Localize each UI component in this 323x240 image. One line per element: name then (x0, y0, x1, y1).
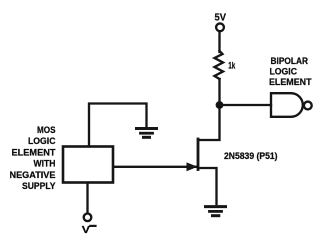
ground (top) bar 1 (137, 127, 157, 130)
svg-text:BIPOLAR: BIPOLAR (271, 56, 309, 66)
wire box top to ground (89, 104, 147, 147)
svg-text:LOGIC: LOGIC (28, 136, 56, 146)
NAND gate U1 body (271, 93, 303, 117)
svg-text:V: V (82, 225, 90, 236)
V- terminal circle (84, 214, 92, 222)
svg-text:WITH: WITH (34, 159, 56, 169)
svg-text:NEGATIVE: NEGATIVE (10, 170, 56, 180)
5V terminal circle (216, 23, 224, 31)
svg-text:1k: 1k (228, 61, 236, 71)
ground (top) bar 2 (141, 132, 153, 135)
svg-text:2N5839 (P51): 2N5839 (P51) (224, 151, 278, 161)
ground (source) bar 1 (206, 205, 226, 208)
transistor Q1 gate arrow (187, 162, 198, 171)
svg-text:ELEMENT: ELEMENT (12, 147, 56, 157)
svg-text:LOGIC: LOGIC (270, 66, 298, 76)
wire box bottom to V- terminal (86, 183, 88, 213)
svg-text:ELEMENT: ELEMENT (269, 77, 312, 87)
svg-text:5V: 5V (215, 13, 227, 24)
transistor Q1 source lead (199, 168, 217, 204)
node junction (drain / NAND input) (216, 101, 224, 109)
wire 5V terminal to resistor (218, 32, 220, 53)
resistor R1 1k (215, 51, 224, 79)
wire node to NAND input (220, 104, 272, 106)
ground (top) bar 3 (144, 136, 150, 139)
wire gate from MOS box (114, 166, 196, 168)
transistor Q1 channel bar (197, 139, 200, 170)
ground (source) bar 3 (213, 214, 219, 217)
svg-text:MOS: MOS (37, 125, 56, 135)
NAND gate output bubble (304, 102, 312, 110)
ground (source) bar 2 (210, 210, 222, 213)
wire node to JFET drain (199, 108, 220, 140)
wire resistor to drain node (218, 79, 220, 105)
MOS logic element box (63, 147, 113, 183)
svg-text:SUPPLY: SUPPLY (22, 181, 56, 191)
